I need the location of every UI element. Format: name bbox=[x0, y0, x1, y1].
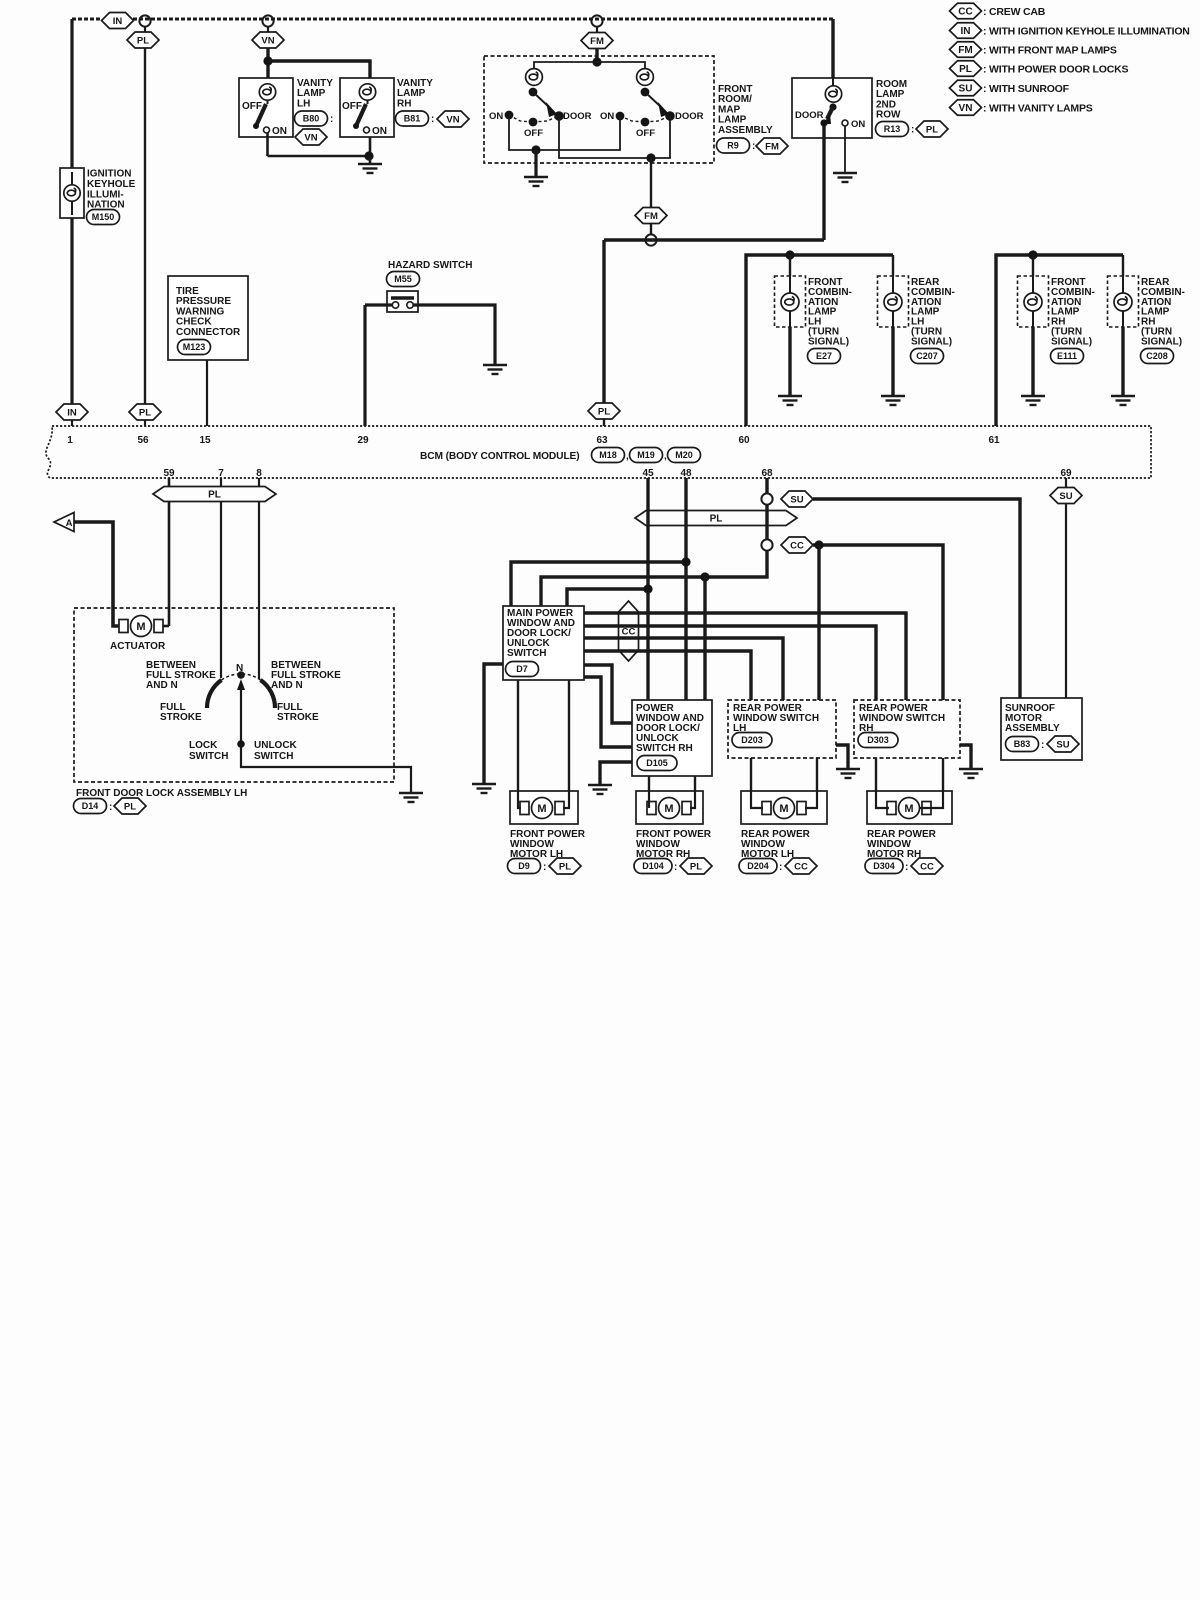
contact arc L2 bbox=[533, 116, 559, 122]
option VN below B80 bbox=[295, 129, 327, 145]
wire through lamp box bbox=[71, 172, 73, 215]
contact arc R1 bbox=[620, 116, 645, 122]
wire pin7 to lock switch bbox=[220, 501, 222, 678]
svg-text:: WITH FRONT MAP LAMPS: : WITH FRONT MAP LAMPS bbox=[983, 45, 1117, 57]
svg-text:SIGNAL): SIGNAL) bbox=[808, 336, 849, 347]
rear combination lamp LH (turn signal) C207 bbox=[878, 276, 909, 327]
svg-text:VN: VN bbox=[959, 103, 973, 114]
svg-text:VN: VN bbox=[304, 132, 317, 143]
node N contact bbox=[237, 671, 245, 679]
wire hazard switch to ground bbox=[413, 305, 495, 364]
wire D105 to front motor RH (a) bbox=[648, 776, 650, 791]
option SU below pin 69 bbox=[1050, 488, 1082, 504]
node junction RH turn feed bbox=[1028, 250, 1037, 259]
svg-text:1: 1 bbox=[67, 435, 73, 446]
wire ON contacts to ground bbox=[509, 115, 620, 150]
wire lamp to box edge bbox=[789, 308, 791, 327]
svg-text:ON: ON bbox=[851, 119, 865, 130]
option PL above BCM pin 63 bbox=[588, 403, 620, 419]
wire switch common to ground bbox=[394, 767, 411, 792]
svg-text:56: 56 bbox=[137, 435, 149, 446]
legend symbol PL bbox=[950, 61, 982, 77]
svg-text:R13: R13 bbox=[884, 124, 901, 134]
wire BCM pin 61 to RH turn lamps bbox=[996, 255, 1123, 426]
node junction ground tap bbox=[531, 145, 540, 154]
svg-text:PL: PL bbox=[208, 490, 221, 501]
node switch pivot R bbox=[641, 88, 650, 97]
lamp room 2nd row bbox=[825, 86, 841, 102]
option banner PL (door lock wires) bbox=[153, 487, 276, 502]
wire door output to FM bbox=[650, 158, 652, 208]
svg-text:PL: PL bbox=[137, 35, 149, 46]
svg-text:: WITH IGNITION KEYHOLE ILLUMI: : WITH IGNITION KEYHOLE ILLUMINATION bbox=[983, 26, 1190, 38]
svg-text:PL: PL bbox=[690, 861, 702, 872]
connector label M55 bbox=[387, 272, 420, 287]
switch lever map L bbox=[533, 92, 550, 108]
svg-text:DOOR: DOOR bbox=[795, 110, 824, 121]
svg-text:IN: IN bbox=[961, 26, 971, 37]
svg-text:M: M bbox=[779, 803, 788, 815]
option IN above BCM pin 1 bbox=[56, 404, 88, 420]
node junction connector at map-lamp drop bbox=[591, 15, 602, 26]
wire stub to BCM pin 63 bbox=[603, 419, 605, 426]
vanity lamp LH B80 bbox=[239, 78, 293, 137]
option PL after R13 bbox=[916, 121, 948, 137]
switch lever map R bbox=[645, 92, 662, 108]
contact DOOR R bbox=[665, 111, 675, 121]
svg-text:D204: D204 bbox=[747, 861, 769, 871]
wire D7 to D203 (1) bbox=[584, 638, 783, 700]
svg-text:60: 60 bbox=[738, 435, 750, 446]
rear power window switch RH D303 bbox=[854, 700, 960, 758]
svg-text:BCM (BODY CONTROL MODULE): BCM (BODY CONTROL MODULE) bbox=[420, 451, 580, 462]
rear combination lamp RH (turn signal) C208 bbox=[1108, 276, 1139, 327]
svg-text:FM: FM bbox=[644, 211, 658, 222]
wire wiper to box edge bbox=[241, 688, 394, 767]
wire BCM pin45 down to D105 bbox=[646, 478, 649, 700]
svg-text:ASSEMBLY: ASSEMBLY bbox=[718, 125, 773, 136]
svg-text:IN: IN bbox=[113, 16, 123, 27]
svg-text:ROW: ROW bbox=[876, 110, 901, 121]
wire SU branch to sunroof motor assembly bbox=[813, 499, 1020, 698]
node junction to D105 pin bbox=[700, 572, 709, 581]
wire ON contact to ground bbox=[844, 126, 846, 172]
wire D7 to D303 (1) bbox=[584, 613, 906, 700]
contact OFF L bbox=[529, 118, 538, 127]
lamp map RH bbox=[637, 69, 654, 86]
svg-text:B81: B81 bbox=[404, 114, 421, 124]
wire D303 ground bbox=[960, 745, 971, 768]
wire vanity feed to RH bbox=[268, 61, 370, 78]
node junction vanity feed split bbox=[263, 56, 272, 65]
svg-text:29: 29 bbox=[357, 435, 369, 446]
node junction pin45 branch bbox=[643, 584, 652, 593]
svg-text:FRONT DOOR LOCK ASSEMBLY LH: FRONT DOOR LOCK ASSEMBLY LH bbox=[76, 788, 247, 799]
wire top bus to room lamp 2nd row bbox=[831, 19, 834, 78]
svg-text:B80: B80 bbox=[303, 114, 320, 124]
wire into rear motor RH bbox=[876, 791, 889, 808]
svg-text:SU: SU bbox=[1059, 491, 1072, 502]
switch lever room lamp bbox=[827, 107, 833, 119]
lever tip bbox=[353, 123, 359, 129]
option VN after B81 bbox=[437, 111, 469, 127]
svg-text:VN: VN bbox=[446, 114, 459, 125]
svg-text:UNLOCK: UNLOCK bbox=[254, 740, 298, 751]
wire FM to map lamp assembly bbox=[595, 48, 598, 62]
lamp vanity RH bbox=[359, 84, 375, 100]
svg-text:SWITCH: SWITCH bbox=[254, 751, 293, 762]
svg-text:PL: PL bbox=[598, 406, 610, 417]
node junction connector CC branch bbox=[761, 539, 772, 550]
svg-text:AND N: AND N bbox=[271, 680, 303, 691]
svg-text:OFF: OFF bbox=[524, 128, 543, 139]
node junction door output bbox=[646, 153, 655, 162]
wire top bus main segment bbox=[133, 18, 833, 21]
option FM (top) bbox=[581, 33, 613, 49]
wire feed in lamp box bbox=[892, 276, 894, 296]
wire FM hex to junction circle bbox=[650, 223, 652, 235]
svg-text:C207: C207 bbox=[916, 351, 938, 361]
wire D105 ground bbox=[600, 762, 632, 784]
lamp map LH bbox=[526, 69, 543, 86]
svg-text:N: N bbox=[236, 663, 243, 674]
ground D203 bbox=[836, 769, 860, 778]
svg-text:SU: SU bbox=[1056, 739, 1069, 750]
front combination lamp LH (turn signal) E27 bbox=[775, 276, 806, 327]
svg-text:48: 48 bbox=[680, 468, 692, 479]
contact arc L1 bbox=[509, 115, 533, 122]
svg-text:M55: M55 bbox=[394, 274, 412, 284]
ground room lamp bbox=[833, 173, 857, 182]
node A (off-page arrow) bbox=[54, 513, 74, 532]
connector label D204 bbox=[739, 859, 777, 874]
ground D105 bbox=[588, 785, 612, 794]
wire pin48 branch into D7 bbox=[511, 562, 686, 606]
svg-text:M18: M18 bbox=[599, 450, 617, 460]
svg-text:CC: CC bbox=[790, 540, 804, 551]
svg-text::: : bbox=[1041, 740, 1044, 751]
wire D7 ground bbox=[484, 664, 503, 783]
wire junction to D105 top bbox=[703, 577, 706, 700]
node junction lamp feeds bbox=[592, 57, 601, 66]
wire lamp to ground bbox=[1121, 327, 1124, 395]
wire to ground bbox=[369, 156, 372, 163]
contact ON L bbox=[505, 111, 514, 120]
connector label D304 bbox=[865, 859, 903, 874]
sunroof motor assembly B83 bbox=[1001, 698, 1082, 760]
option FM after R9 bbox=[756, 138, 788, 154]
wire to front combination lamp RH bbox=[1032, 255, 1034, 276]
connector label D105 bbox=[637, 756, 677, 771]
svg-text:CC: CC bbox=[958, 7, 972, 18]
wire M123 to BCM pin 15 bbox=[206, 360, 208, 426]
legend symbol IN bbox=[950, 23, 982, 39]
svg-text:,: , bbox=[664, 451, 667, 462]
svg-text:: WITH POWER DOOR LOCKS: : WITH POWER DOOR LOCKS bbox=[983, 64, 1129, 76]
connector label B81 bbox=[396, 111, 429, 126]
wire circle to PL hex bbox=[144, 26, 146, 32]
svg-text:OFF: OFF bbox=[342, 101, 362, 112]
wire DOOR contacts common bbox=[559, 116, 670, 158]
wire lamp to switch pivot bbox=[267, 100, 269, 104]
connector label M18 bbox=[592, 448, 625, 463]
svg-text:A: A bbox=[66, 518, 73, 529]
connector label B80 bbox=[295, 111, 328, 126]
wire lamp to box edge bbox=[1032, 308, 1034, 327]
svg-text:M123: M123 bbox=[183, 342, 206, 352]
wire lamp to box edge bbox=[892, 308, 894, 327]
svg-text:SWITCH RH: SWITCH RH bbox=[636, 743, 693, 754]
svg-text:M: M bbox=[904, 803, 913, 815]
node junction connector SU branch bbox=[761, 493, 772, 504]
svg-text:: CREW CAB: : CREW CAB bbox=[983, 6, 1046, 18]
wire pin8 to banner bbox=[258, 478, 260, 487]
wire into rear motor RH b bbox=[920, 791, 943, 808]
wire pin68 between circles bbox=[765, 505, 768, 540]
wire pin59 to banner bbox=[168, 478, 171, 487]
legend symbol SU bbox=[950, 80, 982, 96]
svg-text:M: M bbox=[136, 621, 145, 633]
wire lamp to ground bbox=[788, 327, 791, 395]
node switch pivot L bbox=[529, 88, 538, 97]
wire stub to BCM pin 56 bbox=[144, 420, 146, 426]
svg-text:CC: CC bbox=[794, 861, 808, 872]
ground vanity lamps bbox=[358, 164, 382, 173]
wire D7 to D105 (b) bbox=[584, 677, 632, 747]
option banner PL (window wires) bbox=[635, 511, 797, 526]
svg-text:61: 61 bbox=[988, 435, 1000, 446]
option SU right of pin68 bbox=[781, 491, 813, 507]
wire lamp to ground bbox=[891, 327, 894, 395]
lamp turn signal bbox=[884, 293, 902, 311]
svg-text:59: 59 bbox=[163, 468, 175, 479]
svg-text::: : bbox=[109, 802, 112, 813]
wire to rear combination lamp LH bbox=[892, 255, 894, 276]
wire D105 to front motor RH (b) bbox=[694, 776, 696, 791]
wire DOOR contact down to FM node bbox=[822, 126, 825, 240]
svg-text:FM: FM bbox=[765, 141, 779, 152]
wire pin 29 vertical bbox=[363, 305, 366, 426]
node junction connector at vanity drop bbox=[262, 15, 273, 26]
option FM mid bbox=[635, 208, 667, 224]
svg-text:: WITH VANITY LAMPS: : WITH VANITY LAMPS bbox=[983, 103, 1093, 115]
svg-text:69: 69 bbox=[1060, 468, 1072, 479]
motor front RH bbox=[647, 798, 691, 819]
front combination lamp RH (turn signal) E111 bbox=[1018, 276, 1049, 327]
wire lamp to box edge bbox=[1122, 308, 1124, 327]
wire BCM pin69 bbox=[1065, 478, 1067, 487]
connector label M20 bbox=[668, 448, 701, 463]
ground turn signal lamp bbox=[1111, 396, 1135, 405]
lamp ignition keyhole illumination bbox=[64, 185, 80, 201]
svg-text:SU: SU bbox=[790, 494, 803, 505]
svg-text:CC: CC bbox=[622, 627, 636, 638]
ground D7 bbox=[472, 784, 496, 793]
svg-text:M150: M150 bbox=[92, 212, 115, 222]
svg-text::: : bbox=[431, 114, 434, 125]
actuator motor M bbox=[119, 616, 163, 637]
wire lamp to ground bbox=[1031, 327, 1034, 395]
svg-text:PL: PL bbox=[959, 64, 972, 75]
contact arc R2 bbox=[645, 116, 670, 122]
connector label D303 bbox=[858, 733, 898, 748]
wire D7 to front motor LH (b) bbox=[568, 680, 570, 791]
svg-text:D104: D104 bbox=[642, 861, 664, 871]
connector label D9 bbox=[508, 859, 541, 874]
ground D303 bbox=[959, 769, 983, 778]
wire pin1 feed (ignition keyhole illumination) bbox=[70, 19, 73, 404]
wire feed into lamp bbox=[832, 78, 834, 99]
wire map-lamp/room-lamp to BCM pin 63 bbox=[604, 238, 824, 241]
svg-text:M19: M19 bbox=[637, 450, 655, 460]
connector label C207 bbox=[911, 349, 944, 364]
wire into motor box RH bbox=[648, 791, 650, 808]
wire A to actuator bbox=[74, 522, 122, 626]
node switch pivot bbox=[829, 103, 836, 110]
svg-text:STROKE: STROKE bbox=[160, 712, 202, 723]
svg-text:ASSEMBLY: ASSEMBLY bbox=[1005, 723, 1060, 734]
wire BCM pin29 to hazard switch bbox=[365, 303, 392, 306]
legend symbol CC bbox=[950, 3, 982, 19]
lamp vanity LH bbox=[259, 84, 275, 100]
lamp turn signal bbox=[1024, 293, 1042, 311]
svg-text:D9: D9 bbox=[518, 861, 530, 871]
connector label D7 bbox=[506, 662, 539, 677]
wire into motor box RH b bbox=[690, 791, 695, 808]
connector IN (top bus) bbox=[102, 13, 134, 29]
svg-text:IN: IN bbox=[67, 407, 77, 418]
vanity lamp RH B81 bbox=[340, 78, 394, 137]
ground turn signal lamp bbox=[1021, 396, 1045, 405]
ground map lamps bbox=[524, 177, 548, 186]
motor front LH bbox=[520, 798, 564, 819]
node junction LH turn feed bbox=[785, 250, 794, 259]
wire D303 to rear motor RH (b) bbox=[942, 758, 944, 791]
svg-text::: : bbox=[911, 125, 914, 136]
connector label M123 bbox=[178, 340, 211, 355]
rear power window motor LH D204 bbox=[741, 791, 827, 824]
option PL after D14 bbox=[114, 798, 146, 814]
wire D203 to rear motor LH (a) bbox=[750, 758, 752, 791]
switch lever vanity RH bbox=[356, 104, 366, 126]
svg-text:B83: B83 bbox=[1014, 739, 1031, 749]
legend symbol FM bbox=[950, 42, 982, 58]
svg-text:AND N: AND N bbox=[146, 680, 178, 691]
front power window motor LH D9 bbox=[510, 791, 578, 824]
svg-text:E27: E27 bbox=[816, 351, 832, 361]
wire BCM pin48 down to D105 bbox=[684, 478, 687, 700]
wire vanity LH to ground bus bbox=[266, 133, 269, 156]
svg-text::: : bbox=[752, 141, 755, 152]
svg-text:PL: PL bbox=[139, 407, 151, 418]
wire lamp feed rail bbox=[534, 62, 645, 69]
node junction vanity grounds bbox=[364, 151, 373, 160]
svg-text:DOOR: DOOR bbox=[563, 111, 592, 122]
node lock/unlock switch bbox=[237, 740, 245, 748]
node junction connector at pin-56 drop bbox=[139, 15, 150, 26]
lever tip bbox=[253, 123, 259, 129]
svg-text:ON: ON bbox=[600, 111, 614, 122]
ignition keyhole illumination M150 bbox=[60, 168, 84, 218]
option CC right of pin68 bbox=[781, 537, 813, 553]
svg-text:FM: FM bbox=[958, 45, 972, 56]
wire D7 to D203 (2) bbox=[584, 651, 751, 700]
svg-text:SIGNAL): SIGNAL) bbox=[911, 336, 952, 347]
svg-text:SWITCH: SWITCH bbox=[507, 648, 546, 659]
svg-text:45: 45 bbox=[642, 468, 654, 479]
node junction CC to D203 bbox=[814, 540, 823, 549]
wire vanity ground bus bbox=[268, 137, 371, 156]
svg-text:KEYHOLE: KEYHOLE bbox=[87, 179, 136, 190]
wire circle to FM hex bbox=[596, 26, 598, 33]
connector label R9 bbox=[717, 138, 750, 153]
wire pin45 branch into D7 bbox=[567, 589, 648, 606]
ground turn signal lamp bbox=[881, 396, 905, 405]
svg-text:7: 7 bbox=[218, 468, 224, 479]
power window and door lock/unlock switch RH D105 bbox=[632, 700, 712, 776]
svg-text:PL: PL bbox=[926, 124, 938, 135]
svg-text:M20: M20 bbox=[675, 450, 693, 460]
wire pin68 into D7 bbox=[541, 550, 767, 606]
wire pin56 power door lock feed bbox=[144, 48, 146, 404]
main power window and door lock/unlock switch D7 bbox=[503, 606, 584, 680]
connector label M150 bbox=[87, 210, 120, 225]
front room/map lamp assembly R9 bbox=[484, 56, 714, 163]
svg-text:VN: VN bbox=[261, 35, 274, 46]
svg-text:D303: D303 bbox=[867, 735, 889, 745]
legend symbol VN bbox=[950, 100, 982, 116]
wire VN to vanity lamp LH bbox=[266, 48, 269, 78]
contact DOOR bbox=[820, 119, 827, 126]
svg-text:CC: CC bbox=[920, 861, 934, 872]
option CC after D304 bbox=[911, 858, 943, 874]
svg-text:HAZARD SWITCH: HAZARD SWITCH bbox=[388, 260, 472, 271]
svg-text:SWITCH: SWITCH bbox=[189, 751, 228, 762]
svg-text:RH: RH bbox=[397, 98, 411, 109]
ground door lock switch bbox=[399, 793, 423, 802]
wire feed in lamp box bbox=[1032, 276, 1034, 296]
connector label R13 bbox=[876, 122, 909, 137]
wire top bus left segment bbox=[72, 18, 102, 21]
ground hazard switch bbox=[483, 365, 507, 374]
wire down to PL hex pin 63 bbox=[602, 240, 605, 403]
wire into rear motor LH b bbox=[805, 791, 817, 808]
connector label D104 bbox=[634, 859, 672, 874]
room lamp 2nd row R13 bbox=[792, 78, 872, 138]
svg-text:ILLUMI-: ILLUMI- bbox=[87, 189, 124, 200]
svg-text:DOOR: DOOR bbox=[675, 111, 704, 122]
svg-text:SIGNAL): SIGNAL) bbox=[1141, 336, 1182, 347]
tire pressure warning check connector M123 bbox=[168, 276, 248, 360]
lamp turn signal bbox=[1114, 293, 1132, 311]
motor rear LH bbox=[762, 798, 806, 819]
option CC after D204 bbox=[785, 858, 817, 874]
svg-text:SIGNAL): SIGNAL) bbox=[1051, 336, 1092, 347]
svg-text:ON: ON bbox=[272, 126, 287, 137]
svg-text:OFF: OFF bbox=[242, 101, 262, 112]
legend: option code table bbox=[950, 3, 1190, 115]
contact ON R bbox=[616, 112, 625, 121]
wire to ground (map lamps) bbox=[534, 150, 537, 176]
front door lock assembly LH D14 bbox=[74, 608, 394, 782]
wire into rear motor LH bbox=[751, 791, 763, 808]
connector label M19 bbox=[630, 448, 663, 463]
ground turn signal lamp bbox=[778, 396, 802, 405]
connector label E27 bbox=[808, 349, 841, 364]
wire actuator to pin59 drop bbox=[159, 625, 169, 628]
wire into motor box LH b bbox=[563, 791, 569, 808]
node junction pin48 branch bbox=[681, 557, 690, 566]
